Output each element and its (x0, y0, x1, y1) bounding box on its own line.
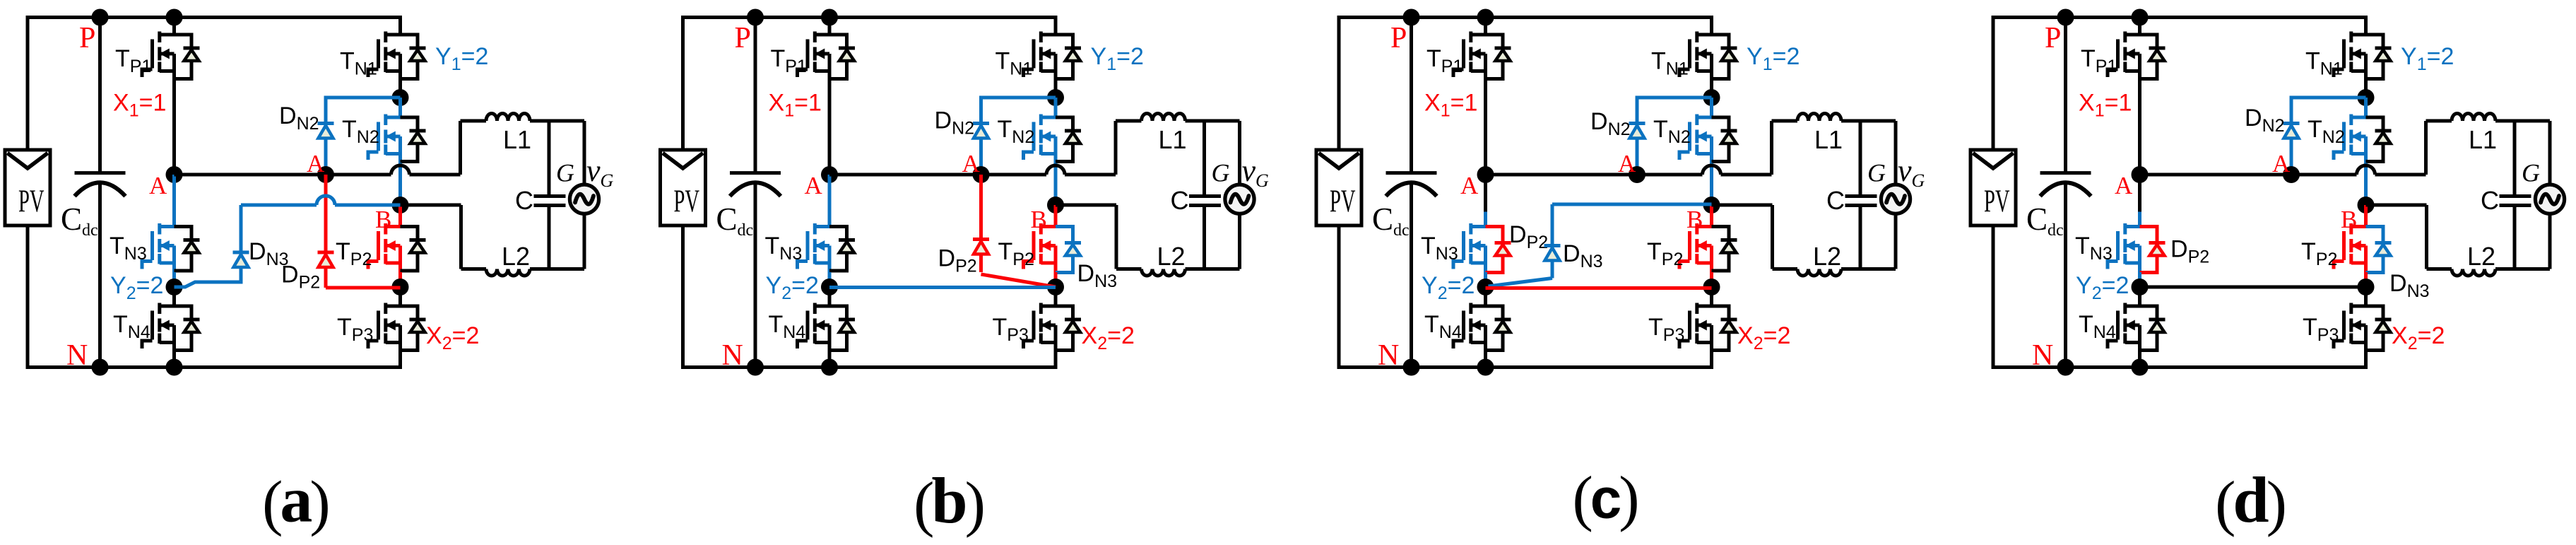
diode DN3 parallel branch (panel d) (2366, 227, 2392, 273)
wire: node X to TP3 drain (panel b) (1054, 287, 1058, 306)
node X junction dot below TP2 (panel b) (1047, 279, 1064, 295)
svg-text:A: A (1460, 172, 1479, 199)
label N node (panel c) (1378, 339, 1399, 372)
label P node (panel a) (79, 22, 95, 54)
label C (panel c) (1826, 186, 1845, 215)
wire: node A to TN3 drain blue part (panel d) (2138, 212, 2141, 227)
node X junction dot below TP2 (panel a) (392, 279, 409, 295)
svg-text:A: A (2115, 172, 2133, 199)
wire: node A to TN3 drain (panel b) (828, 175, 832, 227)
label L2 (panel d) (2467, 242, 2495, 271)
svg-text:X1=1: X1=1 (2079, 90, 2132, 121)
transistor TN2 (panel d) (2334, 115, 2392, 163)
label X2=2 (panel a) (426, 322, 479, 353)
wire: TN4 source to N rail (panel c) (1484, 352, 1487, 368)
transistor TN3 (panel d) (2108, 223, 2140, 272)
svg-text:A: A (149, 172, 167, 199)
wire: node X to TP3 drain (panel d) (2364, 287, 2368, 306)
wire: DC bus P rail (panel d) (1992, 16, 2366, 19)
label DP2 (panel b) (938, 245, 977, 276)
wire: DC bus N rail (panel b) (681, 365, 1056, 369)
wire: left source lead bottom (panel d) (1992, 225, 1995, 369)
wire: TN2 source to node B crossing output wire (panel a) (398, 163, 402, 206)
node Y2 junction dot (panel a) (166, 279, 183, 295)
svg-text:Y2=2: Y2=2 (110, 272, 163, 303)
transistor TN1 (panel b) (1024, 32, 1082, 81)
wire: node A2 to DP2 (panel b) (979, 175, 983, 272)
wire: TP2 source to node X (panel a) (398, 272, 402, 287)
wire: node B line to L2 corner (panel a) (401, 205, 461, 269)
label DP2 (panel a) (281, 262, 320, 293)
diode DN3 (panel c) (1544, 246, 1561, 261)
wire: P rail corner to TN1 drain (panel b) (1054, 16, 1058, 35)
junction dot N-Cdc (panel b) (747, 359, 764, 376)
transistor TP2 (panel d) (2334, 223, 2366, 272)
svg-text:L1: L1 (503, 125, 531, 154)
label DN2 (panel b) (935, 107, 975, 139)
svg-text:Y2=2: Y2=2 (1422, 272, 1475, 303)
capacitor Cdc (panel c) (1386, 18, 1437, 368)
svg-text:G: G (1867, 159, 1886, 187)
diode DN2 (panel c) (1629, 124, 1646, 139)
wire: TP2 source to node X (panel b) (1054, 272, 1058, 287)
junction dot N-leg1 (panel a) (166, 359, 183, 376)
wire: node A to TN3 drain blue part (panel c) (1484, 212, 1487, 227)
label TN2 (panel c) (1653, 116, 1691, 147)
wire: DN3 diagonal to node Y2 (panel c) (1489, 279, 1553, 287)
wire: DC bus N rail (panel a) (26, 365, 401, 369)
wire: DC bus N rail (panel c) (1337, 365, 1712, 369)
wire: TN2 source to node B crossing output wire (panel c) (1710, 163, 1713, 206)
node A junction dot left leg (panel d) (2132, 166, 2149, 183)
transistor TN1 (panel c) (1679, 32, 1737, 81)
wire: P rail corner to TN1 drain (panel c) (1710, 16, 1713, 35)
junction dot N-Cdc (panel c) (1403, 359, 1420, 376)
svg-text:Y1=2: Y1=2 (2401, 43, 2454, 74)
diode DN2 (panel b) (973, 124, 989, 139)
wire: node Y1 to TN2 drain (panel d) (2364, 98, 2368, 117)
wire: node Y2 to TN4 drain (panel b) (828, 287, 832, 306)
label TN3 (panel c) (1421, 233, 1458, 264)
wire: node B line to L2 corner (panel d) (2366, 205, 2427, 269)
label B node (panel b) (1031, 206, 1047, 233)
transistor TP1 (panel a) (142, 32, 200, 81)
svg-text:G: G (1212, 159, 1230, 187)
wire: DC bus P rail (panel c) (1337, 16, 1712, 19)
inductor L2 (panel d) (2427, 269, 2551, 276)
wire: node B to TP2 drain (panel a) (398, 205, 402, 227)
wire: node Y1 to DN2 branch (panel c) (1637, 98, 1712, 175)
diode DN3 (panel a) (233, 252, 249, 267)
transistor TP3 (panel b) (1024, 303, 1082, 352)
label G (panel b) (1212, 159, 1230, 187)
diode DP2 (panel b) (973, 240, 989, 254)
svg-text:X2=2: X2=2 (2392, 322, 2445, 353)
svg-text:L1: L1 (1159, 125, 1187, 154)
label Y1=2 (panel a) (435, 43, 488, 74)
diode DN2 (panel a) (318, 124, 334, 139)
transistor TP1 (panel d) (2108, 32, 2166, 81)
svg-text:Y2=2: Y2=2 (2076, 272, 2129, 303)
svg-text:X1=1: X1=1 (113, 90, 166, 121)
label X2=2 (panel b) (1082, 322, 1135, 353)
wire: output node A line to L1 corner (panel a) (175, 121, 461, 175)
label Y1=2 (panel b) (1091, 43, 1144, 74)
label DN2 (panel a) (279, 102, 319, 134)
label TP3 (panel d) (2303, 314, 2339, 345)
transistor TP2 (panel b) (1024, 223, 1056, 272)
label TN3 (panel b) (765, 233, 803, 264)
label A node center (panel d) (2272, 150, 2291, 177)
wire hop over TN2 source lead (panel d) (2357, 165, 2375, 175)
label DN3 (panel c) (1563, 240, 1603, 271)
transistor TN4 (panel b) (798, 303, 856, 352)
svg-text:(c): (c) (1572, 464, 1639, 533)
label TP1 (panel b) (771, 45, 807, 76)
svg-text:PV: PV (18, 183, 45, 219)
label vG (panel b) (1242, 153, 1270, 191)
wire: TN3 source to node Y2 (panel b) (828, 272, 832, 287)
ac grid source vG (panel d) (2535, 121, 2564, 269)
junction dot P-Cdc (panel b) (747, 9, 764, 26)
transistor TN3 (panel b) (798, 223, 856, 272)
inductor L2 (panel a) (461, 269, 585, 276)
wire: node Y2 to node X blue link (panel b) (829, 286, 1056, 289)
wire: node Y1 to DN2 branch (panel a) (326, 98, 401, 175)
wire: TP3 source to N rail (panel a) (398, 352, 402, 370)
svg-text:C: C (2481, 186, 2499, 215)
label TN3 (panel a) (110, 233, 147, 264)
wire: left source lead top (panel b) (681, 18, 685, 151)
wire: TP1 source to node A (panel b) (828, 81, 832, 175)
wire: TP1 drain lead (panel c) (1484, 18, 1487, 35)
wire: TN3 source to node Y2 (panel c) (1484, 272, 1487, 287)
label A node center (panel c) (1618, 150, 1636, 177)
label TN1 (panel d) (2305, 48, 2343, 79)
label Y1=2 (panel d) (2401, 43, 2454, 74)
label DN3 (panel a) (249, 238, 289, 269)
junction dot P-leg1 (panel b) (821, 9, 838, 26)
junction dot N-Cdc (panel a) (92, 359, 109, 376)
transistor TN4 (panel d) (2108, 303, 2166, 352)
inductor L1 (panel a) (461, 114, 585, 121)
wire: DN3 top to node B with hop (panel a) (241, 204, 401, 207)
label TN4 (panel b) (769, 311, 806, 342)
transistor TP2 (panel c) (1679, 223, 1737, 272)
label B node (panel c) (1686, 206, 1703, 233)
inductor L1 (panel d) (2426, 114, 2551, 121)
wire: node Y1 to DN2 branch (panel b) (981, 98, 1056, 175)
label DN3 (panel b) (1077, 260, 1118, 291)
svg-text:L1: L1 (2469, 125, 2497, 154)
label G (panel a) (556, 159, 574, 187)
wire: TN4 source to N rail (panel a) (172, 352, 176, 368)
svg-text:PV: PV (674, 183, 700, 219)
label A node left (panel b) (805, 172, 823, 199)
label TN3 (panel d) (2075, 233, 2113, 264)
svg-text:Y1=2: Y1=2 (435, 43, 488, 74)
label L1 (panel c) (1814, 125, 1843, 154)
label TN4 (panel c) (1424, 311, 1462, 342)
node Y2 junction dot (panel b) (821, 279, 838, 295)
svg-text:X2=2: X2=2 (1082, 322, 1135, 353)
wire: TN3 source to node Y2 (panel a) (172, 272, 176, 287)
wire: TP1 source to node A (panel a) (172, 81, 176, 175)
label Y2=2 (panel d) (2076, 272, 2129, 303)
wire: DC bus P rail (panel b) (681, 16, 1056, 19)
label TN2 (panel b) (998, 116, 1035, 147)
wire: P rail corner to TN1 drain (panel a) (398, 16, 402, 35)
transistor TP3 (panel a) (368, 303, 426, 352)
node Y1 junction dot (panel c) (1703, 89, 1720, 106)
node B junction dot (panel d) (2358, 197, 2375, 213)
label DN2 (panel c) (1590, 108, 1631, 139)
svg-text:N: N (1378, 339, 1399, 372)
wire: TP1 source to node A (panel d) (2138, 81, 2141, 175)
node A2 junction dot (panel d) (2283, 166, 2300, 183)
diode DP2 parallel branch (panel c) (1486, 227, 1511, 273)
label TN1 (panel a) (340, 48, 377, 79)
label TP2 (panel a) (336, 238, 372, 269)
label TP1 (panel d) (2081, 45, 2117, 76)
transistor TN1 (panel d) (2334, 32, 2392, 81)
label X1=1 (panel d) (2079, 90, 2132, 121)
wire: left source lead top (panel a) (26, 18, 30, 151)
inductor L2 (panel c) (1773, 269, 1896, 276)
wire: TN4 source to N rail (panel b) (828, 352, 832, 368)
wire: output node A line to L1 corner (panel b) (829, 121, 1116, 175)
label L1 (panel a) (503, 125, 531, 154)
diode DN3 parallel branch (panel b) (1056, 227, 1081, 273)
wire: output node A line to L1 corner (panel d) (2140, 121, 2426, 175)
svg-text:P: P (1390, 22, 1407, 54)
node Y1 junction dot (panel a) (392, 89, 409, 106)
label A node center (panel a) (307, 150, 325, 177)
junction dot P-Cdc (panel a) (92, 9, 109, 26)
label TP3 (panel a) (337, 314, 373, 345)
svg-text:L2: L2 (502, 242, 530, 271)
svg-text:B: B (1031, 206, 1047, 233)
label DP2 (panel d) (2170, 236, 2209, 267)
svg-text:N: N (66, 339, 88, 372)
svg-text:Y1=2: Y1=2 (1091, 43, 1144, 74)
wire: node Y2 to TN4 drain (panel c) (1484, 287, 1487, 306)
PV array source PV (panel b) (661, 150, 706, 225)
wire: TP3 source to N rail (panel b) (1054, 352, 1058, 370)
svg-text:P: P (735, 22, 751, 54)
wire: left source lead bottom (panel c) (1337, 225, 1341, 369)
label G (panel c) (1867, 159, 1886, 187)
label Cdc (panel b) (716, 201, 754, 240)
label TN4 (panel a) (113, 311, 150, 342)
wire: left source lead top (panel c) (1337, 18, 1341, 151)
svg-text:N: N (722, 339, 743, 372)
wire: output node A line to L1 corner (panel c) (1486, 121, 1772, 175)
label A node center (panel b) (962, 150, 981, 177)
wire: TP3 source to N rail (panel c) (1710, 352, 1713, 370)
label A node left (panel c) (1460, 172, 1479, 199)
label DN2 (panel d) (2245, 105, 2285, 136)
node X junction dot below TP2 (panel d) (2358, 279, 2375, 295)
wire: TP3 source to N rail (panel d) (2364, 352, 2368, 370)
label X2=2 (panel d) (2392, 322, 2445, 353)
wire: TP1 source to node A (panel c) (1484, 81, 1487, 175)
inductor L2 (panel b) (1116, 269, 1240, 276)
wire: DC bus N rail (panel d) (1992, 365, 2366, 369)
wire: node A to TN3 drain black part (panel d) (2138, 175, 2141, 212)
svg-text:P: P (2045, 22, 2061, 54)
svg-text:C: C (1171, 186, 1189, 215)
label TN4 (panel d) (2079, 311, 2116, 342)
svg-text:P: P (79, 22, 95, 54)
transistor TN2 (panel b) (1024, 115, 1082, 163)
transistor TP3 (panel c) (1679, 303, 1737, 352)
svg-text:B: B (375, 206, 391, 233)
node B junction dot (panel c) (1703, 197, 1720, 213)
label P node (panel d) (2045, 22, 2061, 54)
junction dot N-Cdc (panel d) (2057, 359, 2074, 376)
label vG (panel c) (1898, 153, 1925, 191)
diode DP2 (panel a) (318, 252, 334, 267)
wire: P rail corner to TN1 drain (panel d) (2364, 16, 2368, 35)
transistor TP1 (panel c) (1453, 32, 1511, 81)
wire: node Y2 to node X black link (panel d) (2140, 286, 2366, 289)
svg-text:N: N (2032, 339, 2053, 372)
wire: node B line to L2 corner (panel b) (1056, 205, 1116, 269)
label TP2 (panel c) (1647, 238, 1683, 269)
svg-text:X1=1: X1=1 (769, 90, 822, 121)
label C (panel b) (1171, 186, 1189, 215)
wire: TP1 drain lead (panel d) (2138, 18, 2141, 35)
label TP1 (panel c) (1426, 45, 1463, 76)
wire: TN2 source to node B crossing output wire (panel b) (1054, 163, 1058, 206)
wire: node Y2 to TN4 drain (panel d) (2138, 287, 2141, 306)
label TN1 (panel b) (995, 48, 1033, 79)
label TN2 (panel d) (2308, 116, 2345, 147)
label Cdc (panel d) (2026, 201, 2064, 240)
label P node (panel c) (1390, 22, 1407, 54)
transistor TN4 (panel c) (1453, 303, 1511, 352)
label X1=1 (panel a) (113, 90, 166, 121)
svg-text:PV: PV (1984, 183, 2010, 219)
svg-text:B: B (1686, 206, 1703, 233)
wire: TP1 drain lead (panel b) (828, 18, 832, 35)
node Y2 junction dot (panel d) (2132, 279, 2149, 295)
label A node left (panel d) (2115, 172, 2133, 199)
wire: node B to TP2 drain (panel d) (2364, 205, 2368, 227)
svg-text:G: G (2522, 159, 2540, 187)
label X1=1 (panel c) (1424, 90, 1477, 121)
wire: TP2 source to node X (panel c) (1710, 272, 1713, 287)
label TP1 (panel a) (115, 45, 151, 76)
svg-text:A: A (805, 172, 823, 199)
junction dot P-leg1 (panel c) (1477, 9, 1494, 26)
label Y2=2 (panel b) (766, 272, 819, 303)
wire: node X to TP3 drain (panel c) (1710, 287, 1713, 306)
inductor L1 (panel c) (1772, 114, 1896, 121)
label Y1=2 (panel c) (1747, 43, 1800, 74)
svg-text:X2=2: X2=2 (1737, 322, 1790, 353)
svg-text:Y2=2: Y2=2 (766, 272, 819, 303)
svg-text:L1: L1 (1814, 125, 1843, 154)
wire: TN1 source to node Y1 (panel c) (1710, 81, 1713, 98)
transistor TN2 (panel c) (1679, 115, 1737, 163)
junction dot P-Cdc (panel d) (2057, 9, 2074, 26)
node A2 junction dot (panel a) (317, 166, 334, 183)
wire: node Y1 to TN2 drain (panel b) (1054, 98, 1058, 117)
wire: node B line to L2 corner (panel c) (1712, 205, 1773, 269)
node B junction dot (panel a) (392, 197, 409, 213)
node A junction dot left leg (panel a) (166, 166, 183, 183)
transistor TP2 (panel a) (368, 223, 426, 272)
label L2 (panel a) (502, 242, 530, 271)
label C (panel d) (2481, 186, 2499, 215)
label Y2=2 (panel c) (1422, 272, 1475, 303)
svg-text:X1=1: X1=1 (1424, 90, 1477, 121)
wire: TN4 source to N rail (panel d) (2138, 352, 2141, 368)
wire: TP2 source to node X (panel d) (2364, 272, 2368, 287)
node B junction dot (panel b) (1047, 197, 1064, 213)
svg-text:X2=2: X2=2 (426, 322, 479, 353)
PV array source PV (panel c) (1316, 150, 1361, 225)
svg-text:L2: L2 (2467, 242, 2495, 271)
label G (panel d) (2522, 159, 2540, 187)
junction dot N-leg1 (panel d) (2132, 359, 2149, 376)
label B node (panel a) (375, 206, 391, 233)
node Y1 junction dot (panel d) (2358, 89, 2375, 106)
svg-text:C: C (515, 186, 533, 215)
junction dot P-leg1 (panel a) (166, 9, 183, 26)
label X2=2 (panel c) (1737, 322, 1790, 353)
node A junction dot left leg (panel b) (821, 166, 838, 183)
PV array source PV (panel a) (5, 150, 50, 225)
label TN1 (panel c) (1651, 48, 1689, 79)
label TN2 (panel a) (342, 116, 379, 147)
label C (panel a) (515, 186, 533, 215)
transistor TN3 (panel a) (142, 223, 200, 272)
wire: node A to TN3 drain (panel a) (172, 175, 176, 227)
wire: node Y1 to TN2 drain (panel c) (1710, 98, 1713, 117)
label TP3 (panel c) (1648, 314, 1684, 345)
capacitor C branch (panel c) (1845, 121, 1877, 269)
node Y2 junction dot (panel c) (1477, 279, 1494, 295)
label N node (panel d) (2032, 339, 2053, 372)
node A2 junction dot (panel b) (973, 166, 990, 183)
svg-text:G: G (556, 159, 574, 187)
wire: node B to TP2 drain (panel b) (1054, 205, 1058, 227)
label P node (panel b) (735, 22, 751, 54)
svg-text:Y1=2: Y1=2 (1747, 43, 1800, 74)
wire: left source lead top (panel d) (1992, 18, 1995, 151)
svg-text:C: C (1826, 186, 1845, 215)
wire: TN3 source to node Y2 (panel d) (2138, 272, 2141, 287)
wire: left source lead bottom (panel a) (26, 225, 30, 369)
label B node (panel d) (2341, 206, 2357, 233)
wire: node Y2 to node X red link (panel c) (1486, 286, 1712, 290)
label N node (panel b) (722, 339, 743, 372)
label X1=1 (panel b) (769, 90, 822, 121)
wire hop over TN2 source lead (panel c) (1703, 165, 1721, 175)
label TP2 (panel b) (998, 238, 1034, 269)
wire: node X to TP3 drain (panel a) (398, 287, 402, 306)
wire: node Y2 to DN3 riser (panel a) (175, 205, 242, 287)
label Cdc (panel a) (61, 201, 98, 240)
transistor TN1 (panel a) (368, 32, 426, 81)
label L2 (panel c) (1813, 242, 1841, 271)
wire: TP1 drain lead (panel a) (172, 18, 176, 35)
label vG (panel a) (586, 153, 614, 191)
diode DP2 parallel branch (panel d) (2140, 227, 2166, 273)
